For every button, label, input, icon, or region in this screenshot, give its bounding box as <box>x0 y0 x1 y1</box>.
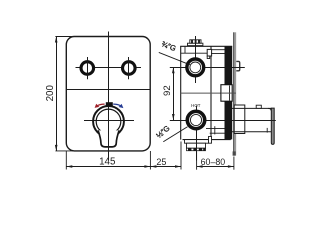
dimension 145 line <box>66 166 150 168</box>
teeth <box>188 148 191 151</box>
side view body right edge <box>210 46 212 139</box>
plate mid seam line <box>66 89 150 91</box>
plate vertical centerline <box>108 32 110 161</box>
outlet pipe tick <box>266 128 268 133</box>
knurl ribs <box>191 40 193 43</box>
bottom fitting block <box>187 143 206 148</box>
dimension 25 extension <box>180 142 182 170</box>
outlet pipe top edge <box>232 107 271 109</box>
dimension 60-80 extension right <box>233 157 235 170</box>
wall plate thin black line <box>233 32 235 155</box>
svg-text:92: 92 <box>162 85 173 96</box>
side view seam to wall y53.5 <box>211 53 225 55</box>
knurled cap base <box>188 43 203 45</box>
wall plate thin gray line <box>234 32 236 155</box>
side view lower step lines <box>206 128 225 130</box>
side view body bottom edge <box>183 139 231 141</box>
bottom port ring <box>187 111 204 128</box>
svg-text:25: 25 <box>156 157 166 167</box>
outlet pipe end band <box>271 108 274 144</box>
outlet pipe top corner <box>268 108 271 111</box>
side view body left step <box>184 46 186 53</box>
top port ring <box>187 59 204 76</box>
svg-text:60–80: 60–80 <box>201 157 226 167</box>
right button vertical tick <box>128 57 130 79</box>
bracket white box <box>221 85 232 102</box>
mounting bracket black bar lower <box>225 101 233 139</box>
side view body left edge <box>180 46 182 139</box>
bracket box inner line <box>229 86 231 101</box>
outlet pipe clamp tab <box>256 105 261 108</box>
knob centerline lower segment <box>108 128 110 161</box>
dimension 200 extension top <box>55 36 80 38</box>
bottom port inner circle <box>190 114 201 125</box>
knob inner ring <box>96 109 121 134</box>
side view body joint line <box>181 92 236 94</box>
knurled cap top <box>190 40 201 43</box>
wall plate bottom foot <box>233 151 236 155</box>
dimension 60-80 line <box>197 166 234 168</box>
bottom fitting right step <box>209 137 212 144</box>
right button circle <box>123 62 136 75</box>
dimension 60-80 extension left <box>196 152 198 170</box>
bottom fitting base <box>185 140 209 144</box>
side view body top seam <box>181 52 208 54</box>
left button vertical tick <box>87 57 89 79</box>
front view trim plate <box>66 37 150 151</box>
knob outer ring <box>93 106 124 137</box>
svg-text:145: 145 <box>99 156 116 167</box>
circles horizontal centerline <box>76 67 142 69</box>
side view body top edge <box>180 45 232 47</box>
G1/2 leader line <box>163 127 187 142</box>
bottom port vertical tick <box>196 106 198 135</box>
hot red arrow <box>97 104 105 106</box>
mounting bracket black bar upper <box>225 47 233 85</box>
dimension 145 extensions <box>65 151 67 170</box>
cold blue arrow <box>113 104 121 106</box>
wall plate clip <box>236 61 239 70</box>
bottom port centerline <box>170 120 276 122</box>
bottom fitting teeth row <box>187 148 206 151</box>
top port centerline <box>170 67 245 69</box>
outlet flange <box>234 105 245 134</box>
knob horizontal centerline <box>84 120 134 122</box>
dimension 200 line <box>56 37 58 152</box>
top port vertical tick <box>195 36 197 83</box>
joint line over box <box>221 92 236 94</box>
side view seam to wall y49.7 <box>212 49 225 51</box>
svg-text:200: 200 <box>45 84 56 101</box>
bottom fitting centerline <box>196 135 198 161</box>
G3/4 leader line <box>159 52 190 64</box>
dimension 25 line <box>150 166 181 168</box>
top port inner circle <box>190 62 201 73</box>
knob skirt <box>98 130 119 147</box>
dimension 200 extension bottom <box>55 150 80 152</box>
dimension 92 line <box>173 67 175 120</box>
left button circle <box>81 62 94 75</box>
knob index marker <box>106 102 113 106</box>
svg-text:HOT: HOT <box>191 103 201 108</box>
side view top-right bracket <box>207 49 211 56</box>
outlet pipe bottom edge <box>232 131 272 133</box>
